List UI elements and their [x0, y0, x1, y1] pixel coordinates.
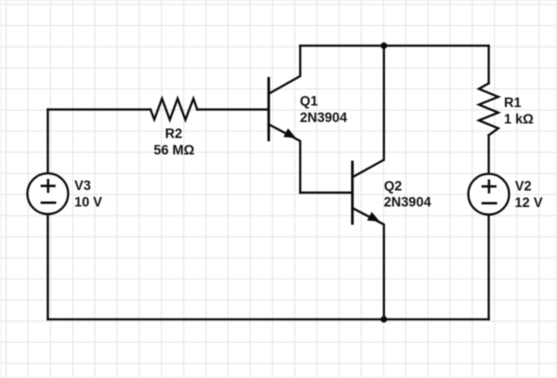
svg-text:Q2: Q2	[384, 178, 402, 193]
svg-text:Q1: Q1	[300, 94, 319, 109]
svg-text:2N3904: 2N3904	[300, 110, 348, 125]
svg-text:R1: R1	[504, 95, 522, 110]
svg-text:V3: V3	[74, 178, 91, 193]
svg-text:2N3904: 2N3904	[384, 195, 432, 210]
svg-text:1 kΩ: 1 kΩ	[504, 112, 534, 127]
svg-text:12 V: 12 V	[515, 195, 543, 210]
svg-text:V2: V2	[515, 179, 532, 194]
svg-text:56 MΩ: 56 MΩ	[154, 142, 195, 157]
svg-text:R2: R2	[165, 126, 182, 141]
svg-text:10 V: 10 V	[74, 195, 102, 210]
